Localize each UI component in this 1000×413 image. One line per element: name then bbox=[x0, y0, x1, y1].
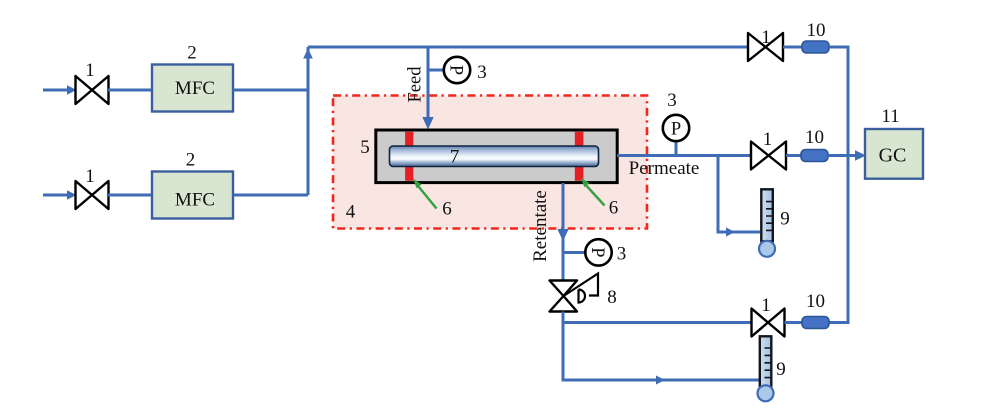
flow meter 9b tube bbox=[760, 336, 772, 387]
wire filter10b to GC with arrow bbox=[828, 150, 866, 161]
wire top header bbox=[308, 46, 748, 49]
wire permeate branch to flow meter 9a bbox=[718, 156, 760, 237]
wire valve8 down and branches bbox=[563, 312, 759, 381]
flow meter 9a bulb bbox=[759, 241, 775, 257]
wire valve1d to filter10b bbox=[786, 154, 801, 157]
filter 10b bbox=[801, 150, 828, 162]
green pointer left (to seal 6) bbox=[413, 179, 437, 209]
svg-text:10: 10 bbox=[807, 20, 826, 41]
svg-text:Retentate: Retentate bbox=[530, 190, 551, 262]
wire feed gauge stem bbox=[428, 69, 445, 72]
svg-text:3: 3 bbox=[617, 244, 627, 265]
wire MFC1 to header bbox=[233, 89, 308, 92]
svg-text:3: 3 bbox=[667, 90, 677, 111]
membrane tube 7 bbox=[390, 146, 599, 167]
wire valve1c to filter10a bbox=[783, 46, 802, 49]
svg-text:P: P bbox=[671, 120, 681, 140]
filter 10a bbox=[802, 41, 829, 53]
svg-text:1: 1 bbox=[761, 295, 771, 316]
MFC 2b box bbox=[152, 172, 233, 219]
wire MFC2 to header bbox=[233, 194, 308, 197]
svg-text:1: 1 bbox=[761, 27, 771, 48]
GC box 11 bbox=[865, 129, 923, 179]
svg-text:P: P bbox=[446, 65, 466, 75]
svg-text:11: 11 bbox=[881, 106, 899, 127]
wire permeate gauge stem bbox=[675, 141, 678, 156]
arrow on bottom line bbox=[656, 376, 665, 385]
svg-text:2: 2 bbox=[186, 150, 196, 171]
valve 1c (top right) bbox=[748, 33, 783, 61]
wire valve1a to MFC1 bbox=[108, 89, 152, 92]
svg-text:7: 7 bbox=[450, 147, 460, 168]
valve 1a bbox=[76, 76, 109, 104]
svg-text:9: 9 bbox=[776, 359, 786, 380]
svg-text:5: 5 bbox=[360, 137, 370, 158]
dashed enclosure 4 bbox=[333, 96, 647, 229]
svg-text:MFC: MFC bbox=[175, 190, 215, 211]
gauge P retentate bbox=[585, 239, 611, 265]
wire permeate line bbox=[617, 154, 751, 157]
svg-text:8: 8 bbox=[607, 287, 617, 308]
flow meter 9b bulb bbox=[758, 385, 774, 401]
wire inlet line 2 bbox=[43, 190, 77, 199]
svg-text:9: 9 bbox=[780, 209, 790, 230]
svg-text:6: 6 bbox=[442, 199, 452, 220]
svg-text:6: 6 bbox=[609, 198, 619, 219]
svg-text:4: 4 bbox=[346, 202, 356, 223]
green pointer right (to seal 6) bbox=[581, 178, 605, 206]
back-pressure valve 8 (vertical bowtie) bbox=[550, 274, 599, 312]
svg-text:P: P bbox=[587, 247, 607, 257]
svg-text:Feed: Feed bbox=[406, 66, 426, 103]
svg-text:MFC: MFC bbox=[175, 78, 215, 99]
svg-text:GC: GC bbox=[879, 145, 907, 167]
svg-text:1: 1 bbox=[85, 60, 95, 81]
svg-text:1: 1 bbox=[763, 129, 773, 150]
MFC 2a box bbox=[152, 65, 233, 112]
wire retentate to bottom valve bbox=[563, 321, 752, 324]
svg-text:10: 10 bbox=[806, 291, 825, 312]
svg-text:1: 1 bbox=[85, 166, 95, 187]
filter 10c bbox=[802, 317, 829, 329]
wire retentate drop bbox=[557, 183, 568, 281]
seal 6 left (red bar) bbox=[405, 132, 413, 181]
membrane module 5 (housing) bbox=[376, 130, 617, 183]
wire right collector (top corner, vertical, bottom corner) bbox=[829, 47, 848, 323]
valve 1b bbox=[76, 181, 109, 209]
flow meter 9a tube bbox=[761, 189, 773, 241]
wire inlet line 1 bbox=[43, 85, 77, 94]
wire valve1e to filter10c bbox=[785, 321, 803, 324]
gauge P permeate bbox=[663, 115, 689, 141]
svg-text:3: 3 bbox=[477, 62, 487, 83]
wire feed drop bbox=[422, 47, 433, 130]
valve 1d (permeate) bbox=[751, 142, 786, 170]
svg-text:Permeate: Permeate bbox=[629, 158, 700, 179]
seal 6 right (red bar) bbox=[575, 132, 584, 181]
wire vertical header riser bbox=[303, 47, 313, 195]
valve 1e (bottom) bbox=[752, 309, 785, 337]
gauge P feed bbox=[444, 57, 470, 83]
svg-text:10: 10 bbox=[805, 127, 824, 148]
svg-text:2: 2 bbox=[187, 43, 197, 64]
wire valve1b to MFC2 bbox=[108, 194, 152, 197]
wire retentate gauge stem bbox=[563, 251, 586, 254]
